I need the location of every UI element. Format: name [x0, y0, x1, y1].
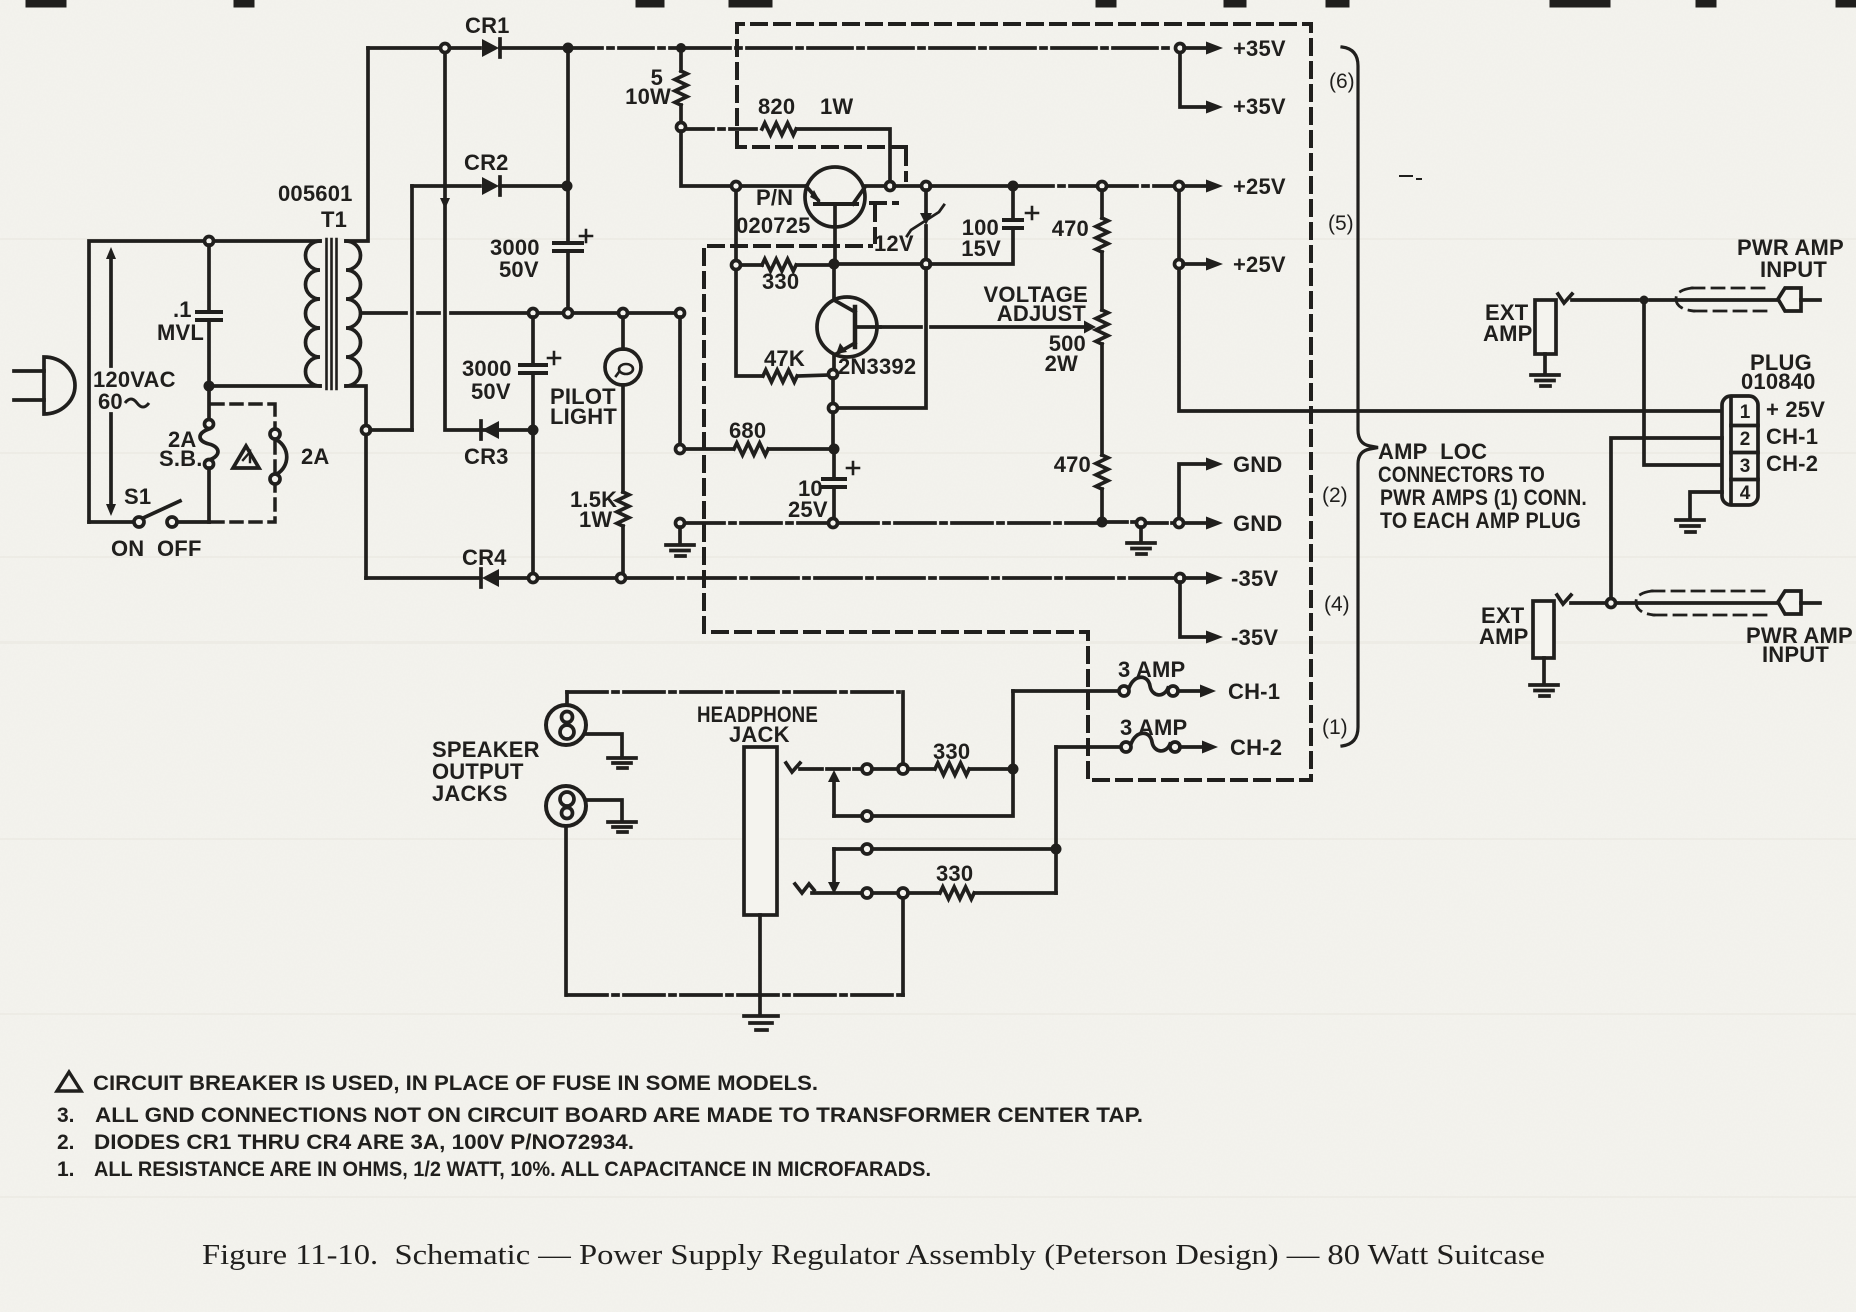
svg-text:3.: 3.	[57, 1104, 75, 1127]
pilot light lamp	[605, 317, 641, 492]
wire: 680 feed	[685, 447, 732, 451]
svg-text:3 AMP: 3 AMP	[1118, 657, 1185, 682]
wire: riser from top pwr junction down to plug pin3	[1644, 305, 1722, 465]
node: center tap end x=680 (open)	[676, 309, 685, 318]
EXT AMP jack (top)	[1531, 294, 1572, 386]
resistor 5 10W	[675, 48, 687, 122]
diode CR4	[481, 569, 499, 587]
svg-text:330: 330	[936, 861, 973, 886]
scan noise dash	[1400, 176, 1421, 179]
svg-text:3 AMP: 3 AMP	[1120, 715, 1187, 740]
svg-text:CH-1: CH-1	[1766, 424, 1818, 449]
switch S1	[89, 501, 209, 527]
resistor 47K	[763, 370, 829, 382]
transistor Q2 2N3392	[817, 268, 880, 370]
wire: riser x=533 from tap bus down to CR4 bus	[531, 317, 535, 573]
svg-text:CR1: CR1	[465, 13, 510, 38]
transformer T1 secondary coil	[346, 241, 361, 386]
wire: bus Q1 to zener	[894, 184, 921, 188]
wire: bus to Q1 emitter	[741, 184, 806, 188]
headphone contact 2	[834, 775, 1013, 821]
node: GND ground tap (open)	[1137, 519, 1146, 528]
svg-text:AMP LOC: AMP LOC	[1378, 439, 1487, 464]
AC plug prong top	[14, 369, 44, 373]
svg-text:1W: 1W	[820, 94, 853, 119]
svg-text:2W: 2W	[1045, 351, 1078, 376]
svg-text:4: 4	[1740, 483, 1751, 504]
svg-text:-35V: -35V	[1231, 566, 1278, 591]
AC plug prong bottom	[14, 398, 44, 402]
resistor 820 1W	[762, 123, 796, 135]
resistor 1.5K 1W	[617, 492, 629, 573]
node: CR3 junction (filled)	[528, 425, 539, 436]
node: top pwr junction (filled)	[1640, 296, 1649, 305]
svg-text:2N3392: 2N3392	[838, 354, 916, 379]
svg-text:CR4: CR4	[462, 545, 507, 570]
diode CR3	[481, 421, 499, 439]
svg-text:CR3: CR3	[464, 444, 509, 469]
wire: -35V no.2 branch	[1180, 582, 1206, 637]
svg-text:3000: 3000	[462, 356, 512, 381]
wire: CR4 bus y=578	[366, 576, 616, 580]
svg-text:010840: 010840	[1741, 369, 1816, 394]
wire: top PWR AMP line	[1572, 298, 1776, 302]
wire+arrow: -35V no.1	[1184, 576, 1206, 580]
svg-text:15V: 15V	[961, 236, 1001, 261]
node: base junction x=834 (filled)	[829, 259, 840, 270]
dashed circuit-board boundary (main)	[704, 24, 1311, 780]
svg-text:(1): (1)	[1322, 716, 1348, 739]
scan artifacts top edge	[30, 0, 1856, 8]
wire: bottom PWR AMP line	[1571, 601, 1776, 605]
svg-text:1.: 1.	[57, 1158, 75, 1181]
wire: bus zener to 100uF	[930, 184, 1008, 188]
svg-text:ALL GND CONNECTIONS NOT ON CIR: ALL GND CONNECTIONS NOT ON CIRCUIT BOARD…	[95, 1104, 1143, 1127]
node: secondary bottom junction (open)	[362, 426, 371, 435]
svg-text:ON: ON	[111, 536, 144, 561]
wire: riser x=445 CR1 bus down to CR3 wire	[445, 52, 478, 430]
capacitor MVL .1	[197, 245, 221, 382]
node: zener top (open)	[922, 182, 931, 191]
wire+arrow: GND no.2	[1184, 521, 1206, 525]
node: CR4 bus at x=621 (open)	[617, 574, 626, 583]
wire: bus to 470 (dash-dot)	[1013, 184, 1097, 188]
wire: plug pin2 to bottom pwr junction	[1611, 438, 1722, 598]
node: 100uF top (filled)	[1008, 181, 1019, 192]
node: -35V tap (open)	[1176, 574, 1185, 583]
resistor 470 lower	[1096, 455, 1108, 517]
zener diode 12V	[907, 190, 944, 260]
svg-text:020725: 020725	[736, 213, 811, 238]
node: CH-2 junction (filled)	[1051, 844, 1062, 855]
svg-text:TO EACH AMP PLUG: TO EACH AMP PLUG	[1380, 508, 1581, 533]
headphone jack body	[744, 747, 778, 1030]
node: 680 left (open)	[676, 445, 685, 454]
svg-text:T1: T1	[321, 207, 347, 232]
svg-text:680: 680	[729, 418, 766, 443]
svg-text:+35V: +35V	[1233, 94, 1286, 119]
svg-text:470: 470	[1054, 452, 1091, 477]
wire: 330 no.2 to CH-2 riser	[976, 891, 1056, 895]
svg-text:470: 470	[1052, 216, 1089, 241]
svg-text:S1: S1	[124, 484, 151, 509]
EXT AMP jack (bottom)	[1530, 595, 1571, 696]
node: +25V no.2 tap (open)	[1175, 260, 1184, 269]
node: bus at 5/10W top (filled)	[676, 43, 686, 53]
resistor 330 (bias)	[741, 259, 829, 271]
capacitor 10 25V	[823, 449, 859, 519]
shielded cable (top, dashed capsule)	[1676, 288, 1772, 311]
wire: secondary bottom riser down to CR4 bus	[346, 386, 366, 578]
node: center tap at x=568 (open)	[564, 309, 573, 318]
wire: 820 feed dash-dot	[687, 127, 760, 131]
svg-text:47K: 47K	[764, 346, 805, 371]
svg-text:CR2: CR2	[464, 150, 509, 175]
svg-text:+25V: +25V	[1233, 252, 1286, 277]
wire: zener return loop	[838, 268, 926, 408]
svg-text:2: 2	[1740, 429, 1751, 450]
wire: emitter down	[831, 378, 835, 404]
node: MVL top (open circle)	[205, 237, 214, 246]
node: 680 junction (filled)	[829, 444, 840, 455]
capacitor 3000 50V no.2	[520, 352, 560, 373]
transformer T1 core	[327, 239, 337, 389]
wire: +25V riser down to plug feed	[1179, 269, 1722, 411]
wire: y=264 link Q bases to 100uF bottom	[838, 231, 1013, 264]
brace grouping outputs	[1342, 47, 1378, 746]
svg-text:330: 330	[762, 269, 799, 294]
svg-text:GND: GND	[1233, 452, 1283, 477]
wire: -35V bus dash-dot to arrow	[626, 576, 1175, 580]
resistor 330 (CH-1 headphone)	[935, 763, 969, 775]
svg-text:INPUT: INPUT	[1760, 257, 1827, 282]
node: CR4 bus at x=533 (open)	[529, 574, 538, 583]
headphone contact 4 (ring)	[795, 884, 938, 995]
ground symbol mid GND bus	[1127, 527, 1155, 554]
svg-text:330: 330	[933, 739, 970, 764]
svg-text:INPUT: INPUT	[1762, 642, 1829, 667]
wire: bus to +25V tap	[1107, 184, 1174, 188]
arrowhead on riser x=445	[440, 198, 450, 209]
wire: riser x=736 bus down to 330/47K	[736, 191, 761, 376]
svg-text:(5): (5)	[1328, 212, 1354, 235]
svg-text:(4): (4)	[1324, 593, 1350, 616]
dashed box: circuit breaker alternate	[212, 404, 275, 522]
wire+arrow: +35V no.1	[1184, 46, 1206, 50]
wire: CH-1 riser	[1011, 691, 1015, 769]
node: CR1 bus at x=445 (open)	[441, 44, 450, 53]
svg-text:.1: .1	[173, 297, 192, 322]
wire: riser x=412 from CR2 wire down	[410, 186, 414, 430]
wire: stub junction to CR2/CR3 riser	[370, 428, 412, 432]
node: zener bottom (open)	[922, 260, 931, 269]
svg-text:+ 25V: + 25V	[1766, 397, 1825, 422]
node: CR1 bus at x=568 (filled)	[563, 43, 574, 54]
wire+arrow: +25V no.2	[1179, 191, 1206, 264]
wire: secondary top to CR1 bus riser	[346, 48, 368, 241]
svg-text:ADJUST: ADJUST	[997, 301, 1087, 326]
node: bottom pwr junction (open)	[1607, 599, 1616, 608]
node: center tap at x=533 (open)	[529, 309, 538, 318]
svg-text:(2): (2)	[1322, 484, 1348, 507]
wire: rail top to MVL node continues to transformer primary top	[213, 239, 320, 243]
wire: CR3 feed	[482, 428, 529, 432]
fuse F1 2A S.B. (slow blow squiggle)	[200, 420, 218, 523]
wire: 820 right to Q1 collector drop	[798, 129, 890, 181]
svg-text:1: 1	[1740, 402, 1751, 423]
ground symbol at 680 bus	[666, 527, 694, 556]
svg-text:AMP: AMP	[1479, 624, 1529, 649]
svg-text:CH-1: CH-1	[1228, 679, 1280, 704]
svg-text:PWR AMPS (1) CONN.: PWR AMPS (1) CONN.	[1380, 485, 1587, 510]
wire: CR2 feed (y=186)	[412, 184, 480, 188]
transformer T1 primary coil	[306, 241, 321, 386]
svg-text:12V: 12V	[874, 231, 914, 256]
svg-text:60: 60	[98, 389, 123, 414]
wire: 330 to CH-1 junction	[971, 767, 1008, 771]
speaker output jack no.2	[546, 786, 636, 995]
wire: CH-2 riser up to fuse and down to 330	[1054, 747, 1058, 893]
potentiometer 500 2W	[1096, 310, 1108, 455]
svg-text:CH-2: CH-2	[1230, 735, 1282, 760]
node: 10uF bottom on GND bus (open)	[829, 519, 838, 528]
wire: speaker jack1 top bus to headphone contact riser	[567, 690, 899, 694]
node: bus at dashed boundary x=736 (open)	[732, 182, 741, 191]
resistor 330 (CH-2 headphone)	[940, 887, 974, 899]
wire: 5-10W bottom down to +25 raw bus	[681, 131, 732, 186]
svg-text:50V: 50V	[499, 257, 539, 282]
node: CR2 junction x=567 (filled)	[562, 181, 573, 192]
svg-text:2.: 2.	[57, 1131, 75, 1154]
node: 470 top (open)	[1098, 182, 1107, 191]
wire: CR1 bus +35V unregulated (y=48)	[368, 46, 480, 50]
svg-text:3: 3	[1740, 456, 1751, 477]
node: GND tap right (open)	[1175, 519, 1184, 528]
transistor Q1 P/N 020725	[805, 167, 886, 260]
node: +25V tap (open)	[1175, 182, 1184, 191]
svg-text:820: 820	[758, 94, 795, 119]
headphone switch arrow 2	[828, 849, 840, 894]
svg-text:+25V: +25V	[1233, 174, 1286, 199]
svg-text:P/N: P/N	[756, 185, 793, 210]
diode CR1	[482, 39, 563, 57]
svg-text:10W: 10W	[625, 84, 671, 109]
svg-text:2A: 2A	[301, 444, 330, 469]
resistor 680	[734, 443, 829, 455]
svg-text:LIGHT: LIGHT	[550, 404, 617, 429]
circuit breaker contacts and arc	[270, 429, 287, 484]
svg-text:JACK: JACK	[729, 722, 790, 747]
svg-text:005601: 005601	[278, 181, 353, 206]
speaker output jack no.1	[546, 692, 636, 768]
plug 010840 body	[1722, 396, 1758, 505]
wire: +35V no.2 branch	[1180, 53, 1206, 107]
wire: riser center-tap end down to 680/ground	[678, 317, 682, 444]
fuse 3 AMP (CH-1)	[1013, 677, 1216, 697]
node: zener return (open)	[829, 404, 838, 413]
svg-text:(6): (6)	[1329, 70, 1355, 93]
wire: GND bus y=523	[684, 521, 1096, 525]
node: 5-10W bottom (open)	[677, 123, 686, 132]
svg-text:-35V: -35V	[1231, 625, 1278, 650]
wire: pot wiper from Q2 base	[880, 325, 1084, 329]
node: center tap at x=623 (open)	[619, 309, 628, 318]
120VAC measurement arrow	[106, 247, 116, 516]
svg-text:CIRCUIT BREAKER IS USED, IN PL: CIRCUIT BREAKER IS USED, IN PLACE OF FUS…	[93, 1072, 818, 1095]
node: junction MVL bottom (filled)	[204, 381, 215, 392]
node: +35V tap (filled)	[1176, 44, 1185, 53]
node: 470 lower bottom on GND bus (filled)	[1097, 517, 1108, 528]
connector bottom PWR AMP INPUT	[1778, 591, 1820, 614]
headphone contact 1 (tip)	[786, 692, 933, 774]
AC plug	[44, 357, 75, 414]
svg-text:S.B.: S.B.	[159, 446, 203, 471]
headphone switch arrow 1	[828, 770, 840, 816]
svg-text:1W: 1W	[579, 507, 612, 532]
capacitor 3000 50V no.1	[554, 230, 592, 308]
svg-text:DIODES CR1 THRU CR4 ARE 3A, 10: DIODES CR1 THRU CR4 ARE 3A, 100V P/NO729…	[94, 1131, 634, 1154]
svg-text:CH-2: CH-2	[1766, 451, 1818, 476]
wire: riser x=568 CR1 node down through CR2 node to cap	[566, 53, 570, 240]
wire: bottom return bus	[567, 993, 903, 997]
connector top PWR AMP INPUT	[1778, 288, 1820, 311]
svg-text:50V: 50V	[471, 379, 511, 404]
wire: plug pin4 to ground	[1676, 492, 1722, 532]
wire: emitter to 680 junction	[831, 412, 835, 445]
fuse 3 AMP (CH-2)	[1056, 733, 1218, 753]
warning triangle (delta note ref)	[233, 446, 259, 468]
svg-text:CONNECTORS TO: CONNECTORS TO	[1378, 462, 1545, 487]
svg-text:JACKS: JACKS	[432, 781, 508, 806]
svg-text:ALL RESISTANCE ARE IN OHMS, 1/: ALL RESISTANCE ARE IN OHMS, 1/2 WATT, 10…	[94, 1158, 931, 1181]
headphone contact 3	[834, 844, 1051, 854]
node: 47K right / emitter (open)	[829, 370, 838, 379]
svg-text:OFF: OFF	[157, 536, 202, 561]
wire: center tap bus y=313	[361, 311, 676, 315]
node: GND bus end-left (open)	[676, 519, 685, 528]
wire+arrow: GND no.1	[1179, 464, 1206, 518]
svg-text:25V: 25V	[788, 497, 828, 522]
wire+arrow: +25V no.1	[1184, 184, 1206, 188]
shielded cable (bottom, dashed capsule)	[1636, 591, 1772, 615]
svg-text:AMP: AMP	[1483, 321, 1533, 346]
note delta	[57, 1072, 81, 1091]
wire: primary bottom	[209, 384, 320, 388]
svg-text:+35V: +35V	[1233, 36, 1286, 61]
wire: CR1 bus dash-dot to 5-10W and +35V arrow	[568, 46, 676, 50]
svg-text:GND: GND	[1233, 511, 1283, 536]
node: CH-1 junction (filled)	[1008, 764, 1019, 775]
svg-text:Figure 11-10. Schematic — Pow: Figure 11-10. Schematic — Power Supply R…	[202, 1239, 1545, 1271]
paper scan streaks	[0, 238, 1856, 1198]
node: Q1 collector bus (open)	[886, 182, 895, 191]
capacitor 100 15V	[1004, 191, 1038, 228]
resistor 470 upper	[1096, 190, 1108, 310]
svg-text:MVL: MVL	[157, 320, 204, 345]
wire: MVL junction down to fuse	[207, 386, 211, 419]
wire: left AC rail	[89, 241, 205, 522]
diode CR2	[482, 177, 561, 195]
node: 330 left (open)	[732, 261, 741, 270]
